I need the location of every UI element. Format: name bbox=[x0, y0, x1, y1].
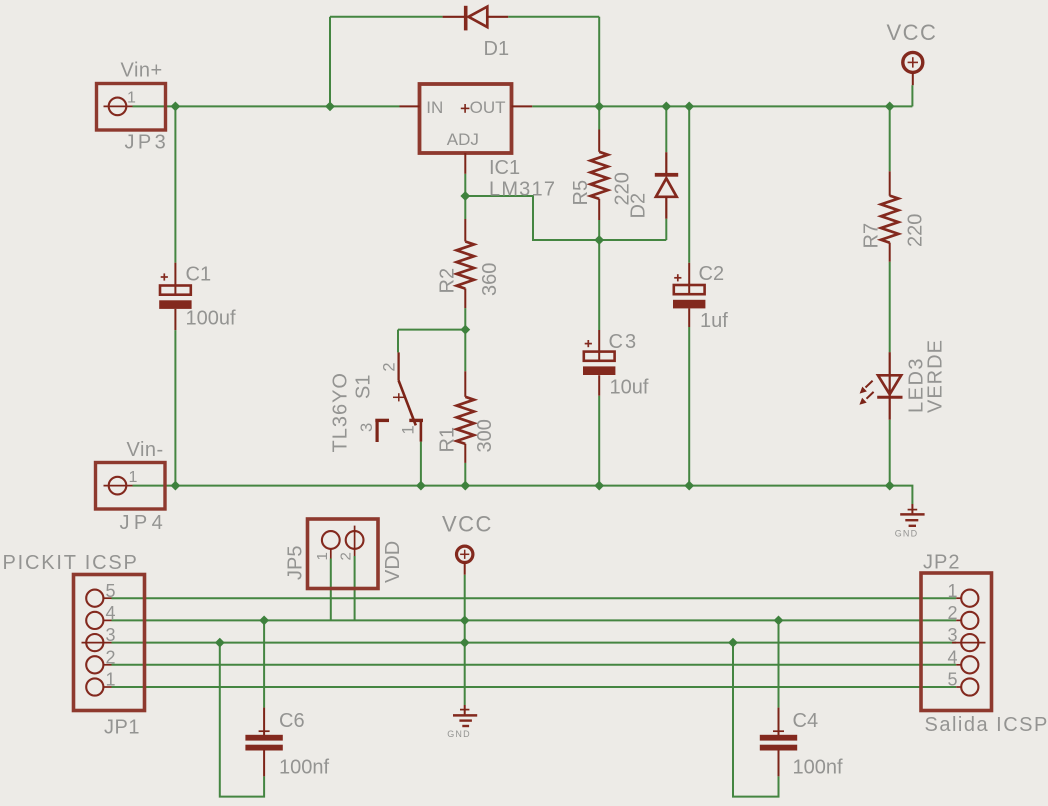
wire JP5 pin2 drop bbox=[354, 556, 356, 620]
svg-text:1: 1 bbox=[127, 90, 136, 107]
JP5 pin number 2 bbox=[337, 552, 354, 560]
label C4 value 100nf bbox=[793, 757, 843, 779]
label JP3 bbox=[125, 132, 170, 154]
junction GND / LED3 bbox=[885, 481, 895, 491]
svg-text:LM317: LM317 bbox=[489, 179, 556, 201]
capacitor C4 bbox=[760, 708, 797, 777]
svg-text:1: 1 bbox=[129, 469, 138, 486]
ground GND (right) bbox=[900, 504, 924, 526]
wire R7 to LED3 bbox=[889, 262, 891, 353]
wire R1 bottom stub bbox=[464, 463, 466, 486]
wire D1 cathode to corner bbox=[508, 16, 599, 18]
wire C1 bottom drop bbox=[174, 330, 176, 486]
label R2 bbox=[437, 268, 459, 294]
wire D2 bottom stub bbox=[665, 219, 667, 240]
svg-text:Vin-: Vin- bbox=[127, 439, 164, 461]
wire D2 top stub bbox=[665, 106, 667, 152]
wire GND bus corner bbox=[890, 486, 913, 504]
JP2 pin number 2 bbox=[948, 603, 958, 623]
capacitor C3 bbox=[583, 330, 615, 396]
JP1 pin number 3 bbox=[106, 625, 116, 645]
label C3 value 10uf bbox=[610, 377, 649, 399]
svg-text:PICKIT ICSP: PICKIT ICSP bbox=[3, 552, 139, 574]
wire S1 pin1 to GND bus bbox=[420, 442, 422, 486]
resistor R5 bbox=[591, 130, 608, 221]
wire C4 top drop bbox=[778, 620, 780, 707]
resistor R1 bbox=[457, 371, 474, 463]
svg-text:JP3: JP3 bbox=[125, 132, 170, 154]
svg-text:VCC: VCC bbox=[887, 20, 938, 45]
svg-text:D2: D2 bbox=[628, 193, 650, 219]
resistor R2 bbox=[457, 219, 474, 308]
svg-text:OUT: OUT bbox=[470, 98, 506, 117]
junction GND / C4 bbox=[728, 638, 738, 648]
wire C2 bottom drop bbox=[688, 327, 690, 486]
label PICKIT ICSP bbox=[3, 552, 139, 574]
S1 pin number 1 bbox=[400, 425, 418, 434]
wire C4 bottom route bbox=[733, 643, 779, 797]
wire node to S1 pin2 bbox=[398, 329, 465, 331]
junction VDD / VCC2 bbox=[460, 616, 470, 626]
label Salida ICSP bbox=[925, 714, 1048, 736]
svg-text:5: 5 bbox=[948, 670, 958, 690]
svg-text:3: 3 bbox=[106, 625, 116, 645]
IC1 pin name IN bbox=[426, 98, 443, 117]
wire C6 top drop bbox=[263, 620, 265, 707]
junction ADJ / R5 / C3 bbox=[594, 235, 604, 245]
JP2 pin number 3 bbox=[948, 625, 958, 645]
label D1 bbox=[484, 38, 510, 60]
wire top loop left vertical bbox=[329, 17, 331, 107]
label GND (right) bbox=[895, 529, 919, 539]
JP1 pin number 4 bbox=[106, 603, 116, 623]
svg-text:VCC: VCC bbox=[442, 512, 493, 537]
wire VCC corner up bbox=[911, 85, 913, 106]
junction GND / GND2 bbox=[460, 638, 470, 648]
junction R2 / S1 / R1 bbox=[460, 325, 470, 335]
junction VCC / C2 bbox=[684, 102, 694, 112]
wire ICSP line JP1.4-JP2.2 (VDD) bbox=[112, 619, 957, 621]
capacitor C2 bbox=[673, 263, 705, 327]
wire S1 pin2 stub bbox=[397, 330, 399, 353]
junction VCC / R5 bbox=[594, 102, 604, 112]
junction GND / C1 bbox=[171, 481, 181, 491]
svg-text:VDD: VDD bbox=[382, 541, 404, 583]
svg-text:3: 3 bbox=[358, 423, 376, 432]
label VDD bbox=[382, 541, 404, 583]
svg-text:C2: C2 bbox=[699, 263, 725, 285]
LED LED3 bbox=[859, 352, 902, 420]
label R5 value 220 bbox=[612, 172, 634, 205]
JP1 pin number 5 bbox=[106, 581, 116, 601]
svg-text:Salida ICSP: Salida ICSP bbox=[925, 714, 1048, 736]
junction VCC / D2 bbox=[661, 102, 671, 112]
svg-text:100nf: 100nf bbox=[279, 757, 329, 779]
svg-text:2: 2 bbox=[381, 362, 399, 371]
power VCC (lower) bbox=[457, 546, 473, 575]
connector JP3 bbox=[97, 84, 166, 131]
svg-text:R7: R7 bbox=[861, 223, 883, 249]
svg-text:C4: C4 bbox=[793, 710, 819, 732]
diode D2 bbox=[655, 152, 678, 219]
junction VDD / C6 bbox=[259, 616, 269, 626]
label R1 value 300 bbox=[474, 419, 496, 452]
wire ADJ junction to R2 bbox=[464, 196, 466, 219]
svg-text:1uf: 1uf bbox=[700, 310, 728, 332]
junction Vin+ / C1 bbox=[171, 102, 181, 112]
JP2 pin number 4 bbox=[948, 647, 958, 667]
svg-text:1: 1 bbox=[948, 581, 958, 601]
label R7 bbox=[861, 223, 883, 249]
label IC1 bbox=[489, 157, 520, 179]
wire R5 top stub bbox=[598, 106, 600, 129]
label R2 value 360 bbox=[479, 263, 501, 296]
svg-text:3: 3 bbox=[948, 625, 958, 645]
IC1 pin name ADJ bbox=[447, 130, 479, 149]
S1 pin number 2 bbox=[381, 362, 399, 371]
svg-text:GND: GND bbox=[895, 529, 919, 539]
JP4 pin number 1 bbox=[129, 469, 138, 486]
svg-text:2: 2 bbox=[948, 603, 958, 623]
svg-text:TL36YO: TL36YO bbox=[330, 372, 352, 452]
svg-text:Vin+: Vin+ bbox=[121, 60, 163, 82]
capacitor C1 bbox=[159, 263, 191, 330]
junction ADJ node bbox=[460, 191, 470, 201]
connector JP5 bbox=[308, 519, 379, 589]
svg-text:IC1: IC1 bbox=[489, 157, 520, 179]
wire C3 top drop bbox=[598, 240, 600, 330]
wire C1 top drop bbox=[174, 106, 176, 262]
junction GND / C6 bbox=[215, 638, 225, 648]
svg-text:100uf: 100uf bbox=[186, 308, 236, 330]
wire R5 bottom stub bbox=[598, 220, 600, 240]
wire ICSP line JP1.2-JP2.4 bbox=[112, 664, 957, 666]
JP1 pin number 1 bbox=[106, 670, 116, 690]
junction GND / C2 bbox=[684, 481, 694, 491]
IC1 pin name OUT bbox=[470, 98, 506, 117]
label C4 bbox=[793, 710, 819, 732]
wire ICSP line JP1.5-JP2.1 bbox=[112, 597, 957, 599]
svg-text:C6: C6 bbox=[279, 710, 305, 732]
wire node to R1 bbox=[464, 330, 466, 372]
svg-text:1: 1 bbox=[400, 425, 418, 434]
ground GND (lower) bbox=[453, 705, 477, 726]
svg-text:360: 360 bbox=[479, 263, 501, 296]
wire C3 bottom drop bbox=[598, 396, 600, 486]
svg-text:JP1: JP1 bbox=[104, 717, 140, 739]
junction GND / S1 bbox=[416, 481, 426, 491]
svg-text:IN: IN bbox=[426, 98, 443, 117]
wire corner down to VCC bus bbox=[598, 17, 600, 107]
JP1 pin number 2 bbox=[106, 647, 116, 667]
JP2 pin number 5 bbox=[948, 670, 958, 690]
label C1 value 100uf bbox=[186, 308, 236, 330]
svg-text:C1: C1 bbox=[186, 264, 212, 286]
JP2 pin number 1 bbox=[948, 581, 958, 601]
svg-text:300: 300 bbox=[474, 419, 496, 452]
IC1 OUT pin polarity cross bbox=[461, 104, 470, 113]
wire ICSP line JP1.1-JP2.5 bbox=[112, 686, 957, 688]
svg-text:1: 1 bbox=[314, 552, 331, 560]
label C1 bbox=[186, 264, 212, 286]
wire R2 bottom to node bbox=[464, 308, 466, 330]
label D2 bbox=[628, 193, 650, 219]
wire top loop to D1 anode bbox=[330, 16, 443, 18]
label C3 bbox=[609, 331, 639, 353]
svg-text:R2: R2 bbox=[437, 268, 459, 294]
junction GND / C3 bbox=[594, 481, 604, 491]
power VCC (top right) bbox=[903, 52, 923, 85]
capacitor C6 bbox=[245, 708, 282, 777]
svg-text:ADJ: ADJ bbox=[447, 130, 479, 149]
JP3 pin number 1 bbox=[127, 90, 136, 107]
svg-text:2: 2 bbox=[337, 552, 354, 560]
label C2 value 1uf bbox=[700, 310, 728, 332]
label JP2 bbox=[923, 552, 960, 574]
junction VDD / C4 bbox=[774, 616, 784, 626]
diode D1 bbox=[443, 6, 509, 31]
svg-text:JP5: JP5 bbox=[285, 546, 307, 580]
label C6 bbox=[279, 710, 305, 732]
wire C2 top drop bbox=[688, 106, 690, 262]
wire GND bus (JP4 across) bbox=[133, 485, 890, 487]
svg-text:JP4: JP4 bbox=[120, 512, 168, 534]
wire VCC2 drop to GND2 bbox=[464, 575, 466, 705]
svg-text:C3: C3 bbox=[609, 331, 639, 353]
connector JP2 bbox=[921, 573, 992, 711]
svg-text:VERDE: VERDE bbox=[925, 339, 947, 413]
junction VCC / R7 bbox=[885, 102, 895, 112]
wire VCC bus (IC1 OUT to VCC corner) bbox=[532, 105, 912, 107]
svg-text:220: 220 bbox=[905, 214, 927, 247]
svg-text:GND: GND bbox=[447, 729, 471, 739]
svg-text:5: 5 bbox=[106, 581, 116, 601]
label IC1 value LM317 bbox=[489, 179, 556, 201]
wire ADJ stub bbox=[464, 174, 466, 196]
label C6 value 100nf bbox=[279, 757, 329, 779]
label GND (lower) bbox=[447, 729, 471, 739]
JP5 pin number 1 bbox=[314, 552, 331, 560]
svg-text:2: 2 bbox=[106, 647, 116, 667]
wire C6 bottom route bbox=[220, 643, 264, 797]
label LED3 value VERDE bbox=[925, 339, 947, 413]
svg-text:S1: S1 bbox=[353, 375, 375, 399]
wire ADJ to corner bbox=[465, 196, 666, 240]
svg-text:100nf: 100nf bbox=[793, 757, 843, 779]
label VCC (top right) bbox=[887, 20, 938, 45]
connector JP4 bbox=[96, 463, 166, 510]
op-amp U1 regulator IC1 LM317 body bbox=[400, 84, 533, 174]
wire ICSP line JP1.3-JP2.3 (GND) bbox=[112, 642, 957, 644]
S1 pin number 3 bbox=[358, 423, 376, 432]
svg-text:D1: D1 bbox=[484, 38, 510, 60]
label S1 bbox=[353, 375, 375, 399]
label JP5 bbox=[285, 546, 307, 580]
resistor R7 bbox=[881, 171, 898, 261]
label JP1 bbox=[104, 717, 140, 739]
switch S1 bbox=[375, 352, 423, 442]
connector JP1 bbox=[74, 575, 145, 711]
label VCC (lower) bbox=[442, 512, 493, 537]
label JP4 bbox=[120, 512, 168, 534]
wire JP5 pin1 drop bbox=[330, 559, 332, 621]
label R1 bbox=[437, 427, 459, 453]
svg-text:4: 4 bbox=[948, 647, 958, 667]
svg-text:1: 1 bbox=[106, 670, 116, 690]
label C2 bbox=[699, 263, 725, 285]
junction GND / R1 bbox=[460, 481, 470, 491]
label S1 value TL36YO bbox=[330, 372, 352, 452]
wire R7 top drop bbox=[889, 106, 891, 171]
label Vin- bbox=[127, 439, 164, 461]
svg-text:R5: R5 bbox=[570, 180, 592, 206]
svg-text:JP2: JP2 bbox=[923, 552, 960, 574]
svg-text:R1: R1 bbox=[437, 427, 459, 453]
junction Vin+ / top loop bbox=[325, 102, 335, 112]
svg-text:10uf: 10uf bbox=[610, 377, 649, 399]
wire top bus Vin+ net (JP3 to IC1 IN) bbox=[133, 105, 400, 107]
svg-text:4: 4 bbox=[106, 603, 116, 623]
label LED3 bbox=[906, 357, 928, 413]
wire LED3 to GND bus bbox=[889, 420, 891, 486]
label Vin+ bbox=[121, 60, 163, 82]
label R5 bbox=[570, 180, 592, 206]
label R7 value 220 bbox=[905, 214, 927, 247]
